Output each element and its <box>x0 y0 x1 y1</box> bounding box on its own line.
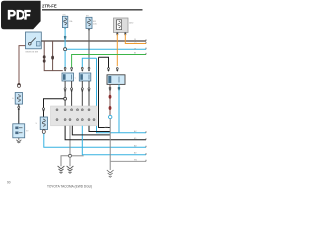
wire cyan vertical x96.5 down then right to edge y133 <box>97 58 147 133</box>
fuse D (mid left) <box>40 117 47 130</box>
node G ground junction circle <box>69 154 72 157</box>
ground arrow center <box>67 166 74 173</box>
inline connector dark red on maroon wire <box>109 95 112 99</box>
wire cyan fuse D down then right to edge y147.3 <box>44 134 146 148</box>
connector pairs below relays R1 R2 <box>64 88 90 92</box>
wire black from block x89 bend right <box>89 126 110 132</box>
wire fuse to relay4 (black) <box>18 104 20 124</box>
connector arrows relay R3 bottom pins <box>109 87 120 91</box>
wire relay R1 pin4 down to junction block <box>71 81 73 107</box>
wire gray from block down to ground junction <box>69 126 71 155</box>
wire drop from AM2 at x52.6 <box>52 41 54 71</box>
wire cyan y58 to relay R2 pin1 and corner down at x96.5 <box>82 58 96 67</box>
relay R3 <box>107 75 125 85</box>
svg-text:IGNITION SW: IGNITION SW <box>25 52 38 54</box>
junction connector block (gray band) <box>51 106 98 126</box>
svg-text:TOYOTA TACOMA (EWD DGU): TOYOTA TACOMA (EWD DGU) <box>47 185 92 189</box>
node J (junction circle) <box>64 48 67 51</box>
wire cyan node to relay R1 pin <box>64 51 66 68</box>
wire end ticks right edge <box>145 39 147 161</box>
wire AM2 horizontal (dark brown) to right edge <box>41 40 146 42</box>
fuse IGN (top, x65) <box>62 16 67 27</box>
wire relay R1 pin3 down to junction block <box>64 81 66 107</box>
wire black from block x72 bend right <box>72 126 110 135</box>
ground arrow bottom right <box>107 170 114 177</box>
inline connector at x52.6 <box>51 56 54 60</box>
wire black horizontal y98.7 with corner down to fuse D <box>44 99 66 117</box>
wire AM1 from ignition switch left pin (maroon) <box>19 46 26 84</box>
wire green horizontal y54.5 to relay R1 pin2 <box>72 55 146 68</box>
svg-text:90: 90 <box>7 180 11 184</box>
wire gray from ground junction right <box>72 155 84 157</box>
wire black feed to relay R3 pin1 <box>99 57 109 67</box>
svg-text:2TR-FE: 2TR-FE <box>42 4 57 9</box>
wire orange fusible pin2 to right edge <box>125 34 146 44</box>
PDF badge <box>1 1 41 29</box>
wire cyan from block x82.3 down then right to edge y154.7 <box>82 126 146 155</box>
connector arrow relay R2 pin2 <box>88 67 90 71</box>
connector arrow relay R1 pin2 <box>70 67 72 71</box>
connector arrow under fuse IGN <box>64 36 66 40</box>
wire orange fusible pin1 down to relay R3 <box>116 34 118 66</box>
node L cyan junction circle <box>109 115 112 118</box>
fusible link box AM2 (gray) <box>114 18 129 36</box>
connector arrow relay R1 pin1 <box>64 67 66 71</box>
header rule <box>42 9 143 11</box>
wire drop from AM2 at x44 <box>44 41 63 71</box>
wire end labels right edge <box>134 39 138 162</box>
wire cyan fuse IGN down to node <box>64 28 66 48</box>
connector arrow relay R2 pin1 <box>81 67 83 71</box>
connector pair on that wire <box>18 106 20 111</box>
wire black y140 from block x65 to right edge <box>65 126 146 140</box>
ground arrow left <box>58 166 65 173</box>
connector arrow under fuse EFI <box>88 29 90 31</box>
node K junction circle <box>64 97 67 100</box>
inline connector on AM1 wire <box>17 83 20 87</box>
ground under relay R4 <box>16 138 21 143</box>
wire maroon relay R3 pin3 down <box>109 84 111 115</box>
inline connector pair at x44 <box>43 55 46 58</box>
wire cyan relay R3 pin4 down then right to edge y133 <box>118 84 120 132</box>
wire gray y161.5 to right edge <box>110 160 146 162</box>
wire relay R2 pin4 down to junction block <box>88 81 90 107</box>
wire relay R2 pin3 down to junction block <box>81 81 83 107</box>
wire gray ground run from node L down <box>109 119 111 170</box>
pin stub under fuse IGN <box>64 28 66 29</box>
wire black vertical x98.5 down, bend into ground wire <box>99 57 111 127</box>
ignition switch SW1 <box>26 32 42 49</box>
connector arrows relay R3 top pins <box>107 68 109 72</box>
relay R1 <box>62 73 74 81</box>
relay R2 <box>79 73 91 81</box>
fuse GAUGE (left column) <box>15 93 22 105</box>
wire gray fuse EFI down to relay R2 pin <box>88 29 90 68</box>
connector pair above fuse D <box>42 108 44 112</box>
wire ground branch left <box>61 156 69 166</box>
fuse EFI (top, x89) <box>86 17 92 28</box>
relay R4 (left bottom) <box>13 124 25 138</box>
wire cyan horizontal y50 to right edge <box>67 48 146 50</box>
inline connector below fuse D <box>42 130 45 134</box>
wire ground stem center <box>69 157 71 166</box>
second inline connector on maroon wire <box>109 106 112 110</box>
